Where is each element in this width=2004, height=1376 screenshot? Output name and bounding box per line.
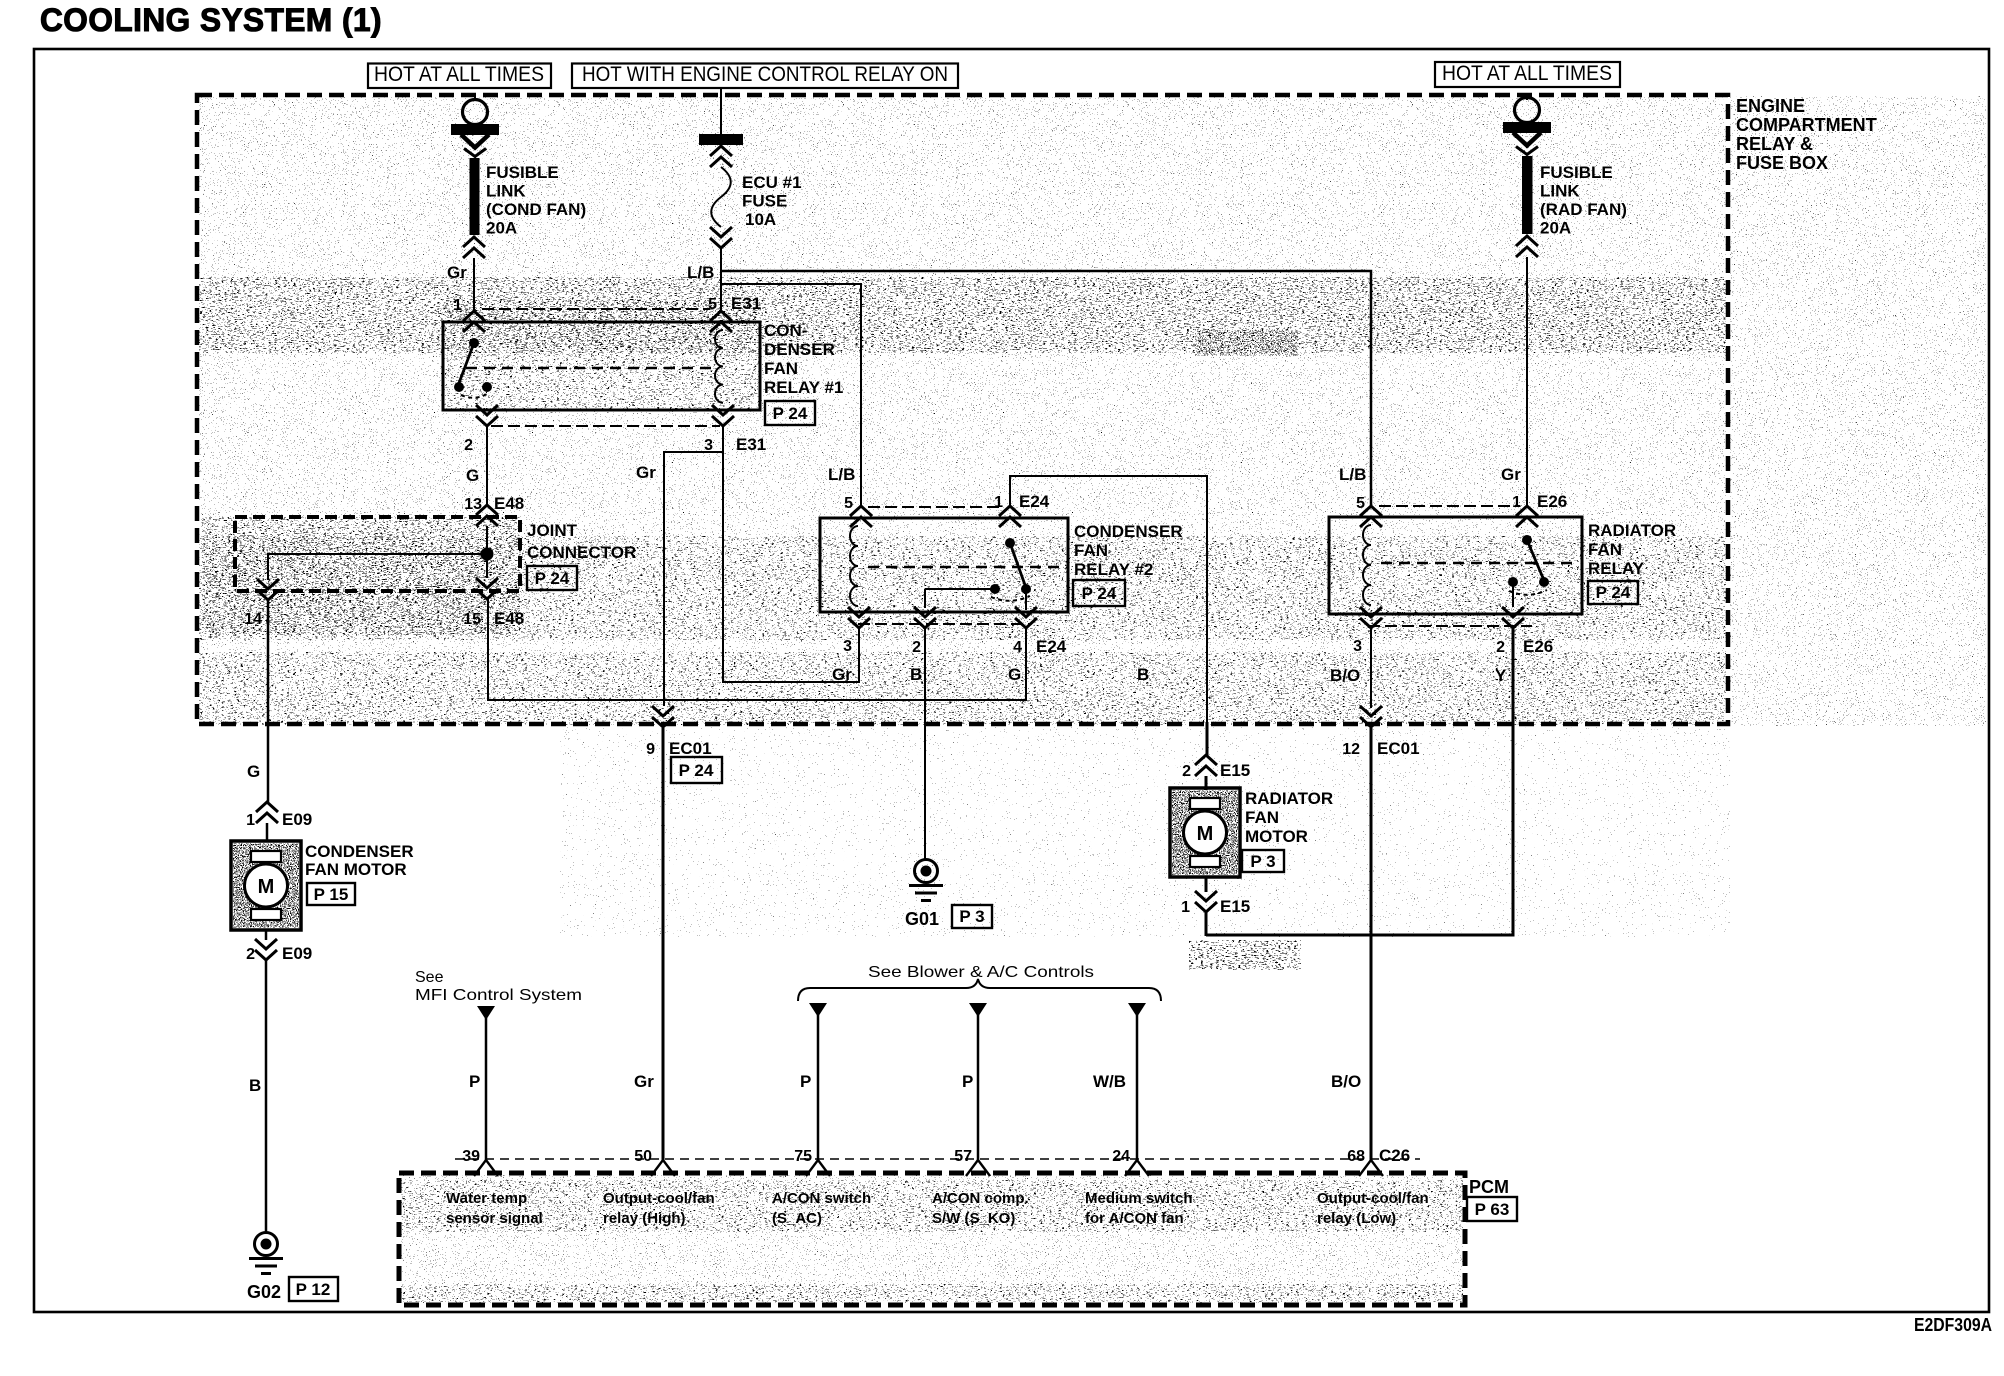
- svg-text:B: B: [249, 1076, 261, 1095]
- svg-text:E09: E09: [282, 810, 312, 829]
- svg-text:P 24: P 24: [1596, 583, 1631, 602]
- svg-text:HOT WITH ENGINE CONTROL RELAY: HOT WITH ENGINE CONTROL RELAY ON: [582, 63, 948, 86]
- rr coil: [1363, 525, 1371, 605]
- svg-text:E48: E48: [494, 609, 524, 628]
- svg-text:FUSIBLE: FUSIBLE: [1540, 163, 1613, 182]
- svg-text:39: 39: [462, 1148, 480, 1165]
- svg-text:B: B: [1137, 665, 1149, 684]
- header box HOT AT ALL TIMES (right): [1435, 62, 1620, 87]
- connector E24 top line: [868, 506, 1003, 508]
- wire G joint pin14 to condenser fan motor: [267, 600, 270, 803]
- wire to pin 15: [486, 554, 488, 578]
- svg-text:G02: G02: [247, 1282, 281, 1302]
- label CONDENSER FAN MOTOR: [305, 842, 414, 879]
- svg-text:10A: 10A: [745, 210, 776, 229]
- svg-text:1: 1: [453, 297, 462, 314]
- svg-text:P 3: P 3: [1250, 852, 1275, 871]
- svg-text:Gr: Gr: [636, 463, 656, 482]
- radiator fan motor: [1170, 788, 1240, 877]
- svg-text:RELAY &: RELAY &: [1736, 134, 1813, 154]
- condenser fan motor: [231, 841, 301, 930]
- svg-text:CON-: CON-: [764, 321, 807, 340]
- svg-text:2: 2: [1496, 639, 1505, 656]
- wire B to radiator fan motor top: [1206, 722, 1209, 756]
- relay2 internal dashed: [868, 566, 1062, 568]
- svg-text:E31: E31: [736, 435, 766, 454]
- svg-text:RADIATOR: RADIATOR: [1588, 521, 1676, 540]
- PCM signal labels: [446, 1190, 1429, 1227]
- svg-text:50: 50: [634, 1148, 652, 1165]
- rr pin 3: [1360, 607, 1382, 628]
- svg-text:JOINT: JOINT: [527, 521, 578, 540]
- svg-text:RELAY #1: RELAY #1: [764, 378, 843, 397]
- label RADIATOR FAN MOTOR: [1245, 789, 1333, 846]
- svg-text:Medium switch: Medium switch: [1085, 1190, 1193, 1207]
- joint connector junction: [486, 526, 488, 554]
- svg-text:12: 12: [1342, 741, 1360, 758]
- relay1 switch: [454, 338, 492, 398]
- svg-text:A/CON comp.: A/CON comp.: [932, 1190, 1029, 1207]
- svg-text:B: B: [910, 665, 922, 684]
- relay2 pin 2: [914, 607, 936, 628]
- fuse ECU #1 10A: [711, 167, 731, 227]
- header box HOT AT ALL TIMES (left): [368, 63, 551, 88]
- svg-text:(S_AC): (S_AC): [772, 1210, 822, 1227]
- label JOINT CONNECTOR: [527, 521, 636, 562]
- connector E48 pin 14: [257, 579, 279, 600]
- label ECU #1 FUSE 10A: [742, 173, 802, 229]
- svg-text:FAN: FAN: [1588, 540, 1622, 559]
- ref box P 3 (G01): [952, 905, 992, 928]
- svg-text:FAN MOTOR: FAN MOTOR: [305, 860, 407, 879]
- svg-text:P 24: P 24: [535, 569, 570, 588]
- relay2 switch: [925, 538, 1031, 610]
- svg-text:5: 5: [708, 296, 717, 313]
- svg-text:1: 1: [1181, 899, 1190, 916]
- radiator fan relay box: [1329, 517, 1582, 614]
- svg-text:P 24: P 24: [1082, 584, 1117, 603]
- svg-text:PCM: PCM: [1469, 1177, 1509, 1197]
- svg-text:HOT AT ALL TIMES: HOT AT ALL TIMES: [374, 63, 544, 86]
- svg-text:FUSE: FUSE: [742, 192, 787, 211]
- wire G relay2 pin4 to joint pin15: [488, 599, 1026, 700]
- PCM box (dashed): [399, 1173, 1465, 1305]
- svg-text:5: 5: [844, 495, 853, 512]
- connector E48 pin 15: [476, 578, 498, 599]
- svg-text:for A/CON fan: for A/CON fan: [1085, 1210, 1184, 1227]
- svg-text:P 15: P 15: [314, 885, 349, 904]
- svg-text:MFI Control System: MFI Control System: [415, 987, 582, 1004]
- svg-text:P: P: [469, 1072, 480, 1091]
- svg-text:Gr: Gr: [634, 1072, 654, 1091]
- wire Gr relay1 pin3 to EC01 and relay2 pin3: [723, 427, 859, 682]
- svg-text:(RAD FAN): (RAD FAN): [1540, 200, 1627, 219]
- brace: [798, 979, 1161, 1001]
- svg-text:E2DF309A: E2DF309A: [1914, 1315, 1992, 1335]
- connector line E31 bottom: [491, 425, 720, 427]
- svg-text:L/B: L/B: [687, 263, 714, 282]
- svg-text:75: 75: [794, 1148, 812, 1165]
- svg-text:E26: E26: [1537, 492, 1567, 511]
- svg-text:15: 15: [463, 611, 481, 628]
- svg-text:Water temp: Water temp: [446, 1190, 527, 1207]
- label CON- DENSER FAN RELAY #1: [764, 321, 843, 397]
- svg-text:COOLING SYSTEM (1): COOLING SYSTEM (1): [40, 2, 382, 38]
- svg-text:20A: 20A: [486, 219, 517, 238]
- ref box P 12: [289, 1277, 338, 1301]
- svg-text:P 63: P 63: [1475, 1200, 1510, 1219]
- svg-text:68: 68: [1347, 1148, 1365, 1165]
- svg-text:Y: Y: [1495, 666, 1507, 685]
- svg-text:W/B: W/B: [1093, 1072, 1126, 1091]
- relay1 pin 2: [476, 405, 498, 426]
- battery feed (middle, ECU): [720, 88, 722, 134]
- svg-text:P: P: [800, 1072, 811, 1091]
- svg-text:FAN: FAN: [1074, 541, 1108, 560]
- wire B/O rr pin3 to EC01 12: [1370, 628, 1372, 708]
- rr internal dashed: [1381, 562, 1576, 564]
- connector line E31 top: [482, 308, 710, 310]
- wire Gr from fusible link to relay1 pin1: [473, 258, 475, 312]
- battery feed (right, rad fan): [1526, 95, 1528, 100]
- relay1 pin 3: [712, 405, 734, 426]
- svg-text:CONDENSER: CONDENSER: [1074, 522, 1183, 541]
- svg-text:ENGINE: ENGINE: [1736, 96, 1805, 116]
- wire B to ground G02: [265, 960, 268, 1233]
- label FUSIBLE LINK (RAD FAN) 20A: [1540, 163, 1627, 238]
- svg-text:Gr: Gr: [832, 665, 852, 684]
- svg-text:14: 14: [244, 611, 262, 628]
- connector C26 line: [455, 1158, 1420, 1160]
- ref box P 3 (motor): [1242, 850, 1284, 872]
- svg-text:MOTOR: MOTOR: [1245, 827, 1308, 846]
- connector E26 bottom line: [1368, 625, 1532, 627]
- wire B relay2 pin1 to radiator fan motor: [1010, 476, 1207, 722]
- connector E26 top line: [1379, 505, 1520, 507]
- svg-text:HOT AT ALL TIMES: HOT AT ALL TIMES: [1442, 62, 1612, 85]
- svg-text:P 12: P 12: [296, 1280, 331, 1299]
- svg-text:FAN: FAN: [1245, 808, 1279, 827]
- label See MFI Control System: [415, 969, 582, 1004]
- svg-text:G: G: [1008, 665, 1021, 684]
- ground G02: [249, 1233, 283, 1274]
- svg-text:EC01: EC01: [1377, 739, 1420, 758]
- svg-text:P 24: P 24: [679, 761, 714, 780]
- ground G01: [909, 860, 943, 901]
- svg-text:E09: E09: [282, 944, 312, 963]
- connector E24 bottom line: [858, 623, 1031, 625]
- svg-text:DENSER: DENSER: [764, 340, 835, 359]
- svg-text:20A: 20A: [1540, 219, 1571, 238]
- ref box P 24 (joint): [527, 566, 577, 590]
- svg-text:E48: E48: [494, 494, 524, 513]
- wire L/B fuse to relay1 pin5: [720, 248, 722, 312]
- arrow blower 2: [969, 1003, 987, 1017]
- arrow blower 1: [809, 1003, 827, 1017]
- svg-text:24: 24: [1112, 1148, 1130, 1165]
- svg-text:G: G: [247, 762, 260, 781]
- wire B/O to PCM 68: [1370, 728, 1373, 1160]
- svg-text:LINK: LINK: [486, 182, 526, 201]
- svg-text:FAN: FAN: [764, 359, 798, 378]
- battery feed (left, cond fan): [474, 95, 476, 100]
- svg-text:B/O: B/O: [1331, 1072, 1361, 1091]
- rr switch: [1508, 535, 1549, 607]
- svg-text:G01: G01: [905, 909, 939, 929]
- svg-text:EC01: EC01: [669, 739, 712, 758]
- svg-text:S/W (S_KO): S/W (S_KO): [932, 1210, 1015, 1227]
- svg-text:relay (High): relay (High): [603, 1210, 686, 1227]
- PCM pin carets: [474, 1160, 498, 1176]
- relay2 pin 4: [1015, 607, 1037, 628]
- svg-text:G: G: [466, 466, 479, 485]
- svg-text:1: 1: [1512, 494, 1521, 511]
- fusible link (RAD FAN) 20A: [1522, 156, 1533, 234]
- svg-text:P 3: P 3: [959, 907, 984, 926]
- svg-text:E24: E24: [1019, 492, 1050, 511]
- svg-text:A/CON switch: A/CON switch: [772, 1190, 871, 1207]
- svg-text:2: 2: [246, 946, 255, 963]
- svg-text:FUSIBLE: FUSIBLE: [486, 163, 559, 182]
- arrow from MFI: [477, 1006, 495, 1020]
- svg-text:E26: E26: [1523, 637, 1553, 656]
- relay CONDENSER FAN RELAY #2: [820, 518, 1068, 612]
- svg-text:1: 1: [994, 494, 1003, 511]
- joint connector (dashed box): [235, 517, 520, 591]
- svg-text:Gr: Gr: [1501, 465, 1521, 484]
- fusible link (COND FAN) 20A: [470, 158, 480, 235]
- svg-text:E31: E31: [731, 294, 761, 313]
- header box HOT WITH ENGINE CONTROL RELAY ON: [572, 63, 958, 88]
- wire L/B branch to radiator fan relay pin 5: [721, 271, 1371, 507]
- svg-text:COMPARTMENT: COMPARTMENT: [1736, 115, 1877, 135]
- relay1 coil: [715, 330, 723, 403]
- wire Gr right fusible link to rr pin1: [1526, 257, 1528, 506]
- svg-text:relay (Low): relay (Low): [1317, 1210, 1396, 1227]
- svg-text:ECU #1: ECU #1: [742, 173, 802, 192]
- svg-text:3: 3: [1353, 638, 1362, 655]
- svg-text:4: 4: [1013, 639, 1022, 656]
- svg-text:2: 2: [912, 639, 921, 656]
- relay1 internal dashed: [466, 367, 714, 369]
- svg-text:3: 3: [843, 638, 852, 655]
- rr pin 2: [1502, 607, 1524, 628]
- svg-text:2: 2: [464, 437, 473, 454]
- svg-text:CONDENSER: CONDENSER: [305, 842, 414, 861]
- ref box P 24 (EC01): [671, 757, 722, 783]
- wire to pin 14: [268, 554, 487, 580]
- svg-text:RADIATOR: RADIATOR: [1245, 789, 1333, 808]
- svg-text:RELAY #2: RELAY #2: [1074, 560, 1153, 579]
- svg-text:E15: E15: [1220, 761, 1250, 780]
- svg-text:sensor signal: sensor signal: [446, 1210, 543, 1227]
- svg-text:P: P: [962, 1072, 973, 1091]
- svg-text:57: 57: [954, 1148, 972, 1165]
- svg-text:Output-cool/fan: Output-cool/fan: [1317, 1190, 1429, 1207]
- engine compartment relay and fuse box (dashed): [197, 95, 1728, 724]
- relay CONDENSER FAN RELAY #1: [443, 322, 760, 410]
- wire Gr EC01 to PCM 50: [662, 728, 665, 1160]
- relay2 coil: [850, 526, 858, 606]
- arrow blower 3: [1128, 1003, 1146, 1017]
- wire L/B branch to relay2 pin 5: [721, 284, 861, 507]
- ref box P 24 (relay1): [765, 401, 815, 425]
- svg-text:E24: E24: [1036, 637, 1067, 656]
- svg-text:Output-cool/fan: Output-cool/fan: [603, 1190, 715, 1207]
- svg-text:L/B: L/B: [1339, 465, 1366, 484]
- wire G relay1 pin2 to joint connector: [486, 427, 488, 506]
- svg-text:B/O: B/O: [1330, 666, 1360, 685]
- label FUSIBLE LINK (COND FAN) 20A: [486, 163, 586, 238]
- connector E15 pin 1: [1205, 877, 1208, 892]
- svg-text:5: 5: [1356, 495, 1365, 512]
- ref box P 24 (rr): [1588, 581, 1638, 604]
- label ENGINE COMPARTMENT RELAY & FUSE BOX: [1736, 96, 1877, 173]
- svg-text:P 24: P 24: [773, 404, 808, 423]
- svg-text:E15: E15: [1220, 897, 1250, 916]
- label CONDENSER FAN RELAY #2: [1074, 522, 1183, 579]
- svg-text:See Blower & A/C Controls: See Blower & A/C Controls: [868, 964, 1094, 981]
- svg-text:2: 2: [1182, 763, 1191, 780]
- svg-text:See: See: [415, 969, 444, 986]
- svg-text:FUSE BOX: FUSE BOX: [1736, 153, 1828, 173]
- svg-text:LINK: LINK: [1540, 182, 1580, 201]
- connector EC01 pin 9: [652, 706, 674, 727]
- relay2 pin 3: [848, 607, 870, 628]
- wire motor bottom to Y wire: [1205, 912, 1208, 936]
- wire Y rr pin2 to radiator fan motor: [1206, 628, 1513, 935]
- connector EC01 pin 12: [1360, 706, 1382, 727]
- svg-text:CONNECTOR: CONNECTOR: [527, 543, 636, 562]
- svg-text:(COND FAN): (COND FAN): [486, 200, 586, 219]
- svg-text:RELAY: RELAY: [1588, 559, 1645, 578]
- wire B relay2 pin2 to ground G01: [924, 628, 926, 859]
- svg-text:9: 9: [646, 741, 655, 758]
- connector E09 pin 2: [265, 930, 268, 940]
- svg-text:C26: C26: [1379, 1146, 1410, 1165]
- ref box P 63: [1467, 1197, 1517, 1221]
- svg-text:Gr: Gr: [447, 263, 467, 282]
- ref box P 15 (motor): [307, 883, 355, 905]
- svg-text:1: 1: [246, 812, 255, 829]
- ref box P 24 (relay2): [1073, 580, 1125, 606]
- label RADIATOR FAN RELAY: [1588, 521, 1676, 578]
- svg-text:L/B: L/B: [828, 465, 855, 484]
